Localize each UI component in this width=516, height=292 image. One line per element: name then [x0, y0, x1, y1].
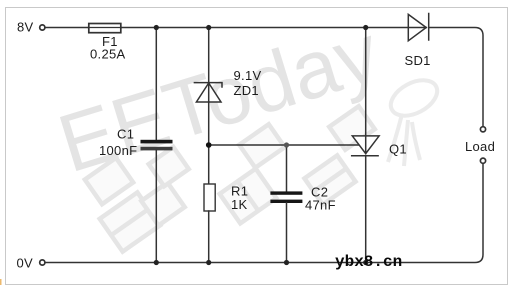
node Load lower terminal [480, 158, 485, 163]
svg-text:47nF: 47nF [305, 198, 336, 213]
wire ZD1 to middle node [208, 102, 210, 184]
svg-text:ZD1: ZD1 [234, 83, 259, 98]
junction bottom rail at C2 [284, 260, 289, 265]
node Load upper terminal [480, 127, 485, 132]
capacitor C1 [141, 140, 173, 151]
junction bottom rail at Q1 [363, 260, 368, 265]
svg-text:100nF: 100nF [99, 143, 137, 158]
junction middle rail at ZD1/R1 [206, 142, 212, 148]
wire R1 to bottom rail [208, 211, 210, 263]
wire right side: lower Load terminal down to bottom rail [46, 164, 484, 263]
transistor Q1 [352, 136, 379, 156]
wire C2 branch upper [286, 145, 288, 192]
junction middle rail at C2 [284, 142, 289, 147]
wire Q1 branch upper [365, 28, 367, 137]
junction bottom rail at R1 [206, 260, 211, 265]
wire top rail: SD1 to right corner, down to Load [429, 28, 483, 127]
node 8V terminal [40, 25, 45, 30]
wire C1 branch upper [155, 28, 157, 141]
svg-text:0.25A: 0.25A [90, 47, 126, 62]
wire C1 branch lower [155, 150, 157, 262]
resistor R1 [204, 184, 215, 211]
svg-text:ybx8.cn: ybx8.cn [335, 253, 402, 271]
watermark chinese blocks [85, 106, 375, 251]
wire ZD1 branch upper [208, 28, 210, 83]
fuse F1 [89, 24, 122, 33]
junction bottom rail at C1 [154, 260, 159, 265]
junction top rail at C1 [154, 25, 159, 30]
svg-text:0V: 0V [17, 256, 34, 271]
node 0V terminal [40, 260, 45, 265]
junction top rail at ZD1 [206, 25, 211, 30]
zener diode ZD1 [194, 83, 222, 102]
wire middle rail: gate line [209, 144, 359, 146]
wire top rail: terminal to fuse [46, 27, 89, 29]
svg-text:Load: Load [465, 139, 495, 154]
capacitor C2 [270, 191, 302, 203]
diode SD1 [408, 14, 428, 41]
wire top rail: fuse to SD1 [121, 27, 408, 29]
wire Q1 branch lower [365, 156, 367, 263]
junction top rail at Q1 [363, 25, 368, 30]
svg-text:1K: 1K [231, 197, 248, 212]
watermark EEToday [49, 7, 392, 192]
watermark swirl texture [385, 73, 443, 166]
svg-text:SD1: SD1 [405, 53, 431, 68]
svg-text:9.1V: 9.1V [234, 68, 262, 83]
svg-text:Q1: Q1 [389, 142, 407, 157]
svg-text:8V: 8V [17, 20, 34, 35]
svg-text:C1: C1 [117, 127, 134, 142]
wire C2 branch lower [286, 203, 288, 263]
